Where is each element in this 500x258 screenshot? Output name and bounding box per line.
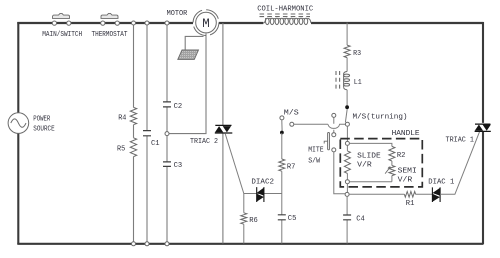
switch THERMOSTAT	[101, 13, 118, 18]
resistor R4	[130, 107, 136, 124]
svg-text:C2: C2	[174, 103, 183, 111]
wire L1 to dot	[346, 90, 348, 106]
resistor R5	[130, 138, 136, 157]
wire R7/C5 rail	[281, 133, 283, 244]
wire: right rail	[482, 22, 484, 244]
svg-text:C3: C3	[174, 162, 183, 170]
wire R4/R5 rail	[133, 23, 135, 244]
node R1 junction	[345, 192, 349, 196]
resistor SLIDE V/R	[346, 146, 348, 180]
svg-text:THERMOSTAT: THERMOSTAT	[92, 31, 128, 39]
svg-text:TRIAC 1: TRIAC 1	[446, 136, 475, 144]
node handle bottom-left	[345, 180, 349, 184]
inductor COIL-HARMONIC	[263, 19, 265, 23]
svg-text:COIL-HARMONIC: COIL-HARMONIC	[257, 5, 313, 13]
svg-text:R2: R2	[397, 152, 406, 160]
svg-text:SEMI: SEMI	[398, 167, 417, 175]
resistor SEMI V/R	[391, 161, 393, 182]
wire diac1 to triac1 gate	[440, 132, 480, 195]
svg-text:R1: R1	[406, 200, 415, 208]
node handle top-left	[345, 141, 349, 145]
node bottom junction 3	[165, 242, 169, 246]
motor M	[196, 12, 217, 33]
wire: bottom bus	[17, 243, 483, 245]
L1 core dashes	[336, 71, 340, 90]
wire to junction below box	[346, 184, 348, 193]
svg-text:M/S: M/S	[284, 109, 300, 117]
handle dashed box	[340, 139, 422, 187]
svg-text:MITE: MITE	[308, 146, 324, 154]
svg-text:R3: R3	[353, 50, 361, 58]
svg-text:L1: L1	[354, 79, 362, 87]
node top junction 1	[132, 21, 136, 25]
svg-text:HANDLE: HANDLE	[392, 130, 421, 138]
wire C4 rail	[346, 197, 348, 244]
ground wire	[185, 36, 203, 50]
wire R6 rail	[243, 194, 245, 244]
svg-text:C4: C4	[356, 215, 365, 223]
node top junction 2	[145, 21, 149, 25]
switch MAIN/SWITCH	[53, 13, 70, 18]
wire C1 rail	[146, 23, 148, 244]
svg-text:R6: R6	[249, 217, 258, 225]
coil core dashes	[260, 14, 311, 17]
node top junction 3	[165, 21, 169, 25]
wire hop	[328, 124, 345, 128]
svg-text:R7: R7	[287, 163, 296, 171]
svg-text:C1: C1	[151, 140, 160, 148]
triac TRIAC 1	[475, 124, 491, 131]
node bottom junction 2	[145, 242, 149, 246]
triac TRIAC 2	[215, 125, 233, 133]
capacitor C3	[163, 162, 171, 167]
svg-text:SLIDE: SLIDE	[357, 153, 381, 161]
svg-text:M/S(turning): M/S(turning)	[353, 114, 408, 122]
ground symbol	[178, 50, 199, 59]
wire: top bus	[17, 22, 483, 24]
svg-text:C5: C5	[288, 215, 297, 223]
svg-text:DIAC2: DIAC2	[251, 179, 274, 187]
svg-text:TRIAC 2: TRIAC 2	[190, 138, 218, 146]
switch M/S	[281, 120, 283, 130]
diac DIAC2	[257, 187, 264, 202]
power source AC	[8, 113, 29, 134]
svg-text:DIAC 1: DIAC 1	[428, 178, 454, 186]
svg-text:MAIN/SWITCH: MAIN/SWITCH	[42, 31, 82, 39]
wire R1	[349, 193, 432, 195]
wire M/S to hop	[294, 123, 328, 125]
wire C2/C3 rail	[166, 23, 168, 244]
node bottom junction 1	[132, 242, 136, 246]
wire diac2 horizontal	[244, 193, 282, 195]
resistor R7	[279, 159, 285, 171]
wire mite rail bottom	[334, 152, 345, 194]
capacitor C4	[343, 215, 351, 220]
wire R3 rail	[346, 23, 348, 72]
svg-text:R5: R5	[117, 146, 126, 154]
svg-text:V/R: V/R	[398, 176, 413, 184]
wire motor-bottom link	[169, 34, 206, 134]
svg-text:MOTOR: MOTOR	[167, 10, 188, 18]
diac DIAC 1	[432, 187, 440, 202]
resistor R2	[389, 146, 395, 161]
resistor R3	[344, 45, 350, 58]
capacitor C1	[143, 131, 151, 136]
node C2/C3 junction	[165, 132, 169, 136]
wire triac2 gate diagonal	[225, 133, 244, 193]
mite switch actuator	[328, 133, 330, 150]
wire into handle box	[346, 126, 348, 141]
inductor L1	[344, 72, 348, 75]
wire triac2 rail	[222, 23, 224, 244]
svg-text:POWER: POWER	[33, 116, 50, 124]
svg-text:S/W: S/W	[308, 157, 320, 165]
svg-text:M: M	[202, 17, 210, 31]
capacitor C2	[163, 102, 171, 107]
svg-text:R4: R4	[118, 114, 127, 122]
resistor R1	[404, 192, 415, 198]
capacitor C5	[278, 215, 286, 220]
wire handle top	[350, 143, 392, 146]
resistor R6	[241, 213, 247, 224]
switch M/S(turning)	[345, 105, 349, 109]
svg-text:SOURCE: SOURCE	[33, 126, 55, 134]
wire: left rail	[17, 22, 19, 244]
wire handle bottom	[350, 181, 392, 183]
wire mite rail top	[333, 118, 335, 133]
svg-text:V/R: V/R	[357, 162, 372, 170]
